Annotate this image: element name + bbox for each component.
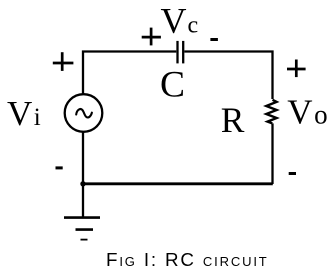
svg-text:R: R (221, 100, 245, 140)
svg-text:Fig I: RC circuit: Fig I: RC circuit (106, 249, 269, 270)
svg-text:C: C (160, 64, 185, 105)
